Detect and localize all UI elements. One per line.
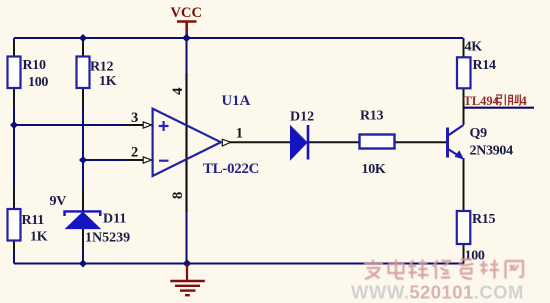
resistor R12 [77,57,90,89]
wire R12 column [82,38,84,264]
opamp power pin line [185,73,187,212]
svg-text:R11: R11 [22,213,45,228]
svg-text:1K: 1K [99,74,117,89]
wire bottom rail [14,263,464,265]
svg-text:Q9: Q9 [470,126,488,141]
pin stubs R10 / R11 (black) [13,41,15,252]
net label TL494 pin 4 (red) [464,94,528,108]
svg-text:1K: 1K [30,230,48,245]
wire opamp power column stubs [186,38,188,264]
网 [506,261,524,279]
svg-text:3: 3 [131,110,138,126]
svg-text:WWW.520101.COM: WWW.520101.COM [351,282,524,303]
pin 2 arrowhead [143,157,151,163]
pin 1 output arrowhead [222,139,231,146]
resistor R15 [457,211,471,244]
wire right top corner to R14 [463,38,465,42]
glyph 引 [496,94,505,105]
resistor R14 [457,57,471,88]
svg-text:1N5239: 1N5239 [85,231,130,246]
svg-text:1: 1 [236,126,243,142]
svg-text:U1A: U1A [222,93,251,109]
svg-text:100: 100 [28,75,48,90]
svg-text:10K: 10K [362,162,386,177]
transistor Q9 [448,125,514,160]
ground [170,264,205,295]
修 [433,260,450,279]
svg-text:8: 8 [170,192,186,200]
svg-text:9V: 9V [50,194,67,209]
output wire to D12 [230,141,291,143]
wire left rail [13,38,15,264]
wire Q9 emitter to R15 [463,158,465,211]
svg-text:4: 4 [521,94,528,108]
diode D12 [290,110,314,160]
VCC power symbol [177,22,197,38]
svg-text:D11: D11 [103,211,126,226]
svg-text:2: 2 [131,144,138,160]
svg-text:R12: R12 [90,60,114,75]
node junction top R12 [79,34,87,42]
pin 3 arrowhead [143,122,151,128]
node junction top VCC [182,34,190,42]
wire R13 to Q9 base [395,141,447,143]
资 [459,260,474,279]
svg-text:TL-022C: TL-022C [203,161,259,177]
svg-text:4: 4 [170,87,186,95]
node junction bottom D11 [79,260,87,268]
resistor R11 [8,209,21,241]
wire top rail [14,37,463,39]
glyph 脚 [508,94,520,105]
node junction bottom ground [183,259,191,267]
svg-text:D12: D12 [290,110,314,125]
node junction pin3 tap [10,121,18,129]
zener diode D11 [50,194,131,246]
svg-text:R15: R15 [472,212,496,227]
wire D12 to R13 [308,141,360,143]
wire R14 to Q9 collector [463,89,465,125]
pin 2 wire [83,159,125,161]
svg-text:2N3904: 2N3904 [470,144,514,159]
svg-text:VCC: VCC [171,5,202,21]
wire net label stub TL494 pin4 [464,107,535,109]
维 [409,260,429,280]
svg-text:TL494: TL494 [464,94,500,108]
pin stubs R12 / D11 (black) [82,41,84,250]
resistor R10 [8,57,21,89]
svg-text:R14: R14 [473,58,497,73]
op-amp U1A [153,93,260,177]
料 [480,260,499,279]
watermark line 1 (CJK, pink) [364,260,523,280]
svg-text:100: 100 [465,249,485,264]
pin 3 wire [14,124,125,126]
svg-text:R10: R10 [23,58,47,73]
家 [364,260,383,280]
node junction pin2 tap [79,156,87,164]
电 [389,260,404,279]
svg-text:R13: R13 [360,109,384,124]
wire R15 bottom lead [463,245,465,264]
svg-text:4K: 4K [465,40,483,55]
resistor R13 [360,135,395,149]
